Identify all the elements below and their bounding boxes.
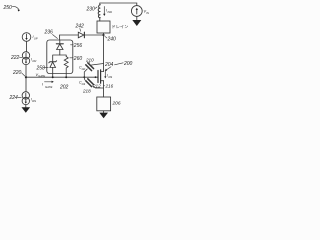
wire (load box bottom to node 240 and drain) bbox=[103, 33, 105, 72]
wire bbox=[25, 65, 27, 92]
voltage source VIN bbox=[131, 6, 149, 17]
svg-text:260: 260 bbox=[73, 56, 83, 62]
node 240 bbox=[102, 34, 116, 43]
ground (bottom right) bbox=[99, 113, 108, 119]
sense box 206 bbox=[97, 97, 111, 111]
node 220 junction bbox=[12, 70, 27, 78]
junction dot (Cgd tap on gate wire) bbox=[83, 76, 85, 78]
svg-text:202: 202 bbox=[59, 85, 69, 91]
svg-text:GD: GD bbox=[82, 68, 86, 71]
label 242 bbox=[75, 24, 85, 32]
current arrow I_DS bbox=[104, 71, 112, 79]
wire bbox=[136, 16, 138, 20]
svg-text:I: I bbox=[42, 83, 44, 87]
wire (inductor top to source) bbox=[100, 3, 137, 5]
current source IUP (top circle of charge pump) bbox=[22, 33, 38, 42]
label 236 bbox=[44, 30, 58, 39]
label 200 with long leader bbox=[115, 61, 133, 67]
svg-text:216: 216 bbox=[105, 84, 114, 89]
svg-text:242: 242 bbox=[75, 24, 85, 30]
label Cgs bbox=[79, 81, 85, 86]
svg-text:200: 200 bbox=[123, 61, 133, 67]
svg-text:222: 222 bbox=[10, 55, 20, 61]
svg-text:258: 258 bbox=[36, 65, 46, 71]
current source 224 (double circle) bbox=[22, 92, 29, 105]
zener diode 258 bbox=[49, 61, 57, 77]
label 260 bbox=[70, 56, 83, 62]
svg-text:DN: DN bbox=[33, 59, 37, 63]
label 216 bbox=[104, 84, 114, 89]
ground (under voltage source) bbox=[132, 20, 141, 26]
wire V_GATE (gate drive line) bbox=[26, 76, 98, 78]
wire (top rail y=35) bbox=[60, 34, 104, 36]
svg-text:236: 236 bbox=[44, 30, 54, 36]
label 210 bbox=[85, 58, 94, 64]
svg-text:220: 220 bbox=[12, 70, 22, 76]
capacitor Cgd 210 (gate-drain, diagonal) bbox=[84, 63, 103, 77]
label 224 bbox=[9, 95, 22, 101]
svg-text:256: 256 bbox=[73, 43, 83, 49]
label 222 bbox=[10, 55, 22, 61]
capacitor Cgs 218 (gate-source, diagonal) bbox=[84, 77, 103, 88]
label IDN (lower) bbox=[31, 98, 36, 104]
svg-text:ドレイン: ドレイン bbox=[112, 24, 129, 29]
label 258 bbox=[36, 65, 49, 71]
diode 256 (inside box, pointing up) bbox=[56, 40, 63, 55]
svg-text:250: 250 bbox=[3, 5, 13, 11]
current arrow I_IND bbox=[103, 7, 112, 17]
label 230 bbox=[86, 7, 98, 13]
wire (inductor bottom to load box) bbox=[99, 18, 101, 21]
junction dot (Cgs tap on gate wire) bbox=[95, 76, 97, 78]
label Cgd bbox=[79, 66, 85, 71]
label 256 bbox=[71, 43, 83, 49]
svg-text:230: 230 bbox=[86, 7, 96, 13]
label IDN (upper) bbox=[31, 58, 36, 64]
svg-text:DS: DS bbox=[109, 75, 113, 79]
svg-text:IN: IN bbox=[146, 11, 149, 15]
svg-text:204: 204 bbox=[104, 62, 114, 68]
svg-text:210: 210 bbox=[85, 58, 94, 63]
wire (box top to top rail) bbox=[59, 35, 61, 40]
svg-text:212: 212 bbox=[92, 84, 101, 89]
label 204 with leader bbox=[104, 62, 114, 71]
transistor 204 (normally-on FET) bbox=[98, 70, 104, 83]
svg-text:206: 206 bbox=[112, 101, 121, 107]
junction dot (resistor leg on gate wire) bbox=[65, 76, 67, 78]
wire bbox=[103, 111, 105, 113]
svg-text:UP: UP bbox=[34, 37, 38, 41]
svg-text:GATE: GATE bbox=[45, 85, 53, 89]
ground (left branch) bbox=[22, 107, 31, 113]
resistor 260 bbox=[64, 57, 68, 78]
wire (source down to sense box) bbox=[103, 81, 105, 97]
wire bbox=[25, 105, 27, 108]
svg-text:GS: GS bbox=[82, 83, 86, 86]
wire bbox=[26, 41, 28, 52]
inductor 230 bbox=[98, 5, 100, 18]
net label V_GATE bbox=[36, 73, 46, 78]
clamp network box 236 bbox=[47, 40, 73, 74]
svg-text:240: 240 bbox=[107, 37, 117, 43]
current source 222 (double circle) bbox=[22, 52, 29, 65]
wire (internal tee) bbox=[53, 55, 66, 62]
figure label 250 with leader arrow bbox=[3, 5, 20, 12]
svg-text:224: 224 bbox=[9, 95, 19, 101]
svg-text:DN: DN bbox=[32, 99, 36, 103]
current arrow I_GATE bbox=[42, 81, 54, 89]
svg-text:GATE: GATE bbox=[38, 74, 45, 78]
junction dot (zener leg on gate wire) bbox=[52, 76, 54, 78]
svg-text:218: 218 bbox=[82, 89, 91, 94]
diode 242 bbox=[78, 32, 84, 38]
load box 244 bbox=[97, 21, 110, 33]
svg-text:IND: IND bbox=[108, 10, 113, 14]
